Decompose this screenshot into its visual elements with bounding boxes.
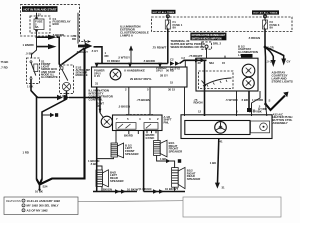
svg-text:BOX: BOX [53, 22, 59, 26]
speaker B1 front left (hatched) [111, 143, 124, 158]
svg-text:HOT AT ALL TIMES: HOT AT ALL TIMES [153, 11, 175, 14]
svg-text:LAMP: LAMP [238, 53, 246, 57]
svg-text:REVISIONS:: REVISIONS: [6, 199, 22, 203]
svg-text:HOT IN RUN AND START: HOT IN RUN AND START [24, 7, 57, 11]
svg-text:.5 WT/RD: .5 WT/RD [225, 98, 237, 102]
label B1 speaker [125, 143, 139, 155]
wire trunk to courtesy arrow [258, 92, 289, 112]
svg-text:SWITCH IN HEADLAMP POSN: SWITCH IN HEADLAMP POSN [192, 37, 222, 40]
svg-text:RD: RD [72, 37, 76, 41]
svg-text:10-31-91 JANUARY 1992: 10-31-91 JANUARY 1992 [27, 199, 61, 203]
AC panel top pin labels [198, 109, 262, 113]
dashed linkage to auto lamp relay [80, 36, 92, 43]
svg-text:.5 GY: .5 GY [267, 59, 274, 63]
wire speaker B4 to right ground bus [174, 187, 176, 192]
svg-text:1 BK: 1 BK [210, 161, 216, 165]
svg-text:.7 RD: .7 RD [1, 65, 8, 69]
svg-text:S CR: S CR [267, 46, 274, 50]
svg-text:BK/GN: BK/GN [103, 187, 112, 191]
label A32 right of AC panel [273, 112, 293, 124]
wire control unit to console box pin 2 [149, 87, 151, 115]
svg-text:U 15: U 15 [94, 74, 100, 78]
svg-text:30 15: 30 15 [168, 88, 175, 92]
cluster bulb 2 [243, 77, 255, 89]
wire node A down to switch S1 [32, 47, 37, 58]
brace splice connector [76, 40, 88, 55]
revisions box [4, 197, 78, 215]
bus wire node B [97, 63, 168, 65]
svg-text:.5 GY: .5 GY [91, 49, 98, 53]
svg-text:LAMPS A: LAMPS A [120, 34, 134, 38]
svg-text:7: 7 [116, 117, 118, 121]
wire from arrows to headlamp switch node [57, 37, 62, 66]
wire S2 to left trunk [42, 91, 67, 179]
fuse/relay box F1 (dashed enclosure) [21, 5, 80, 36]
svg-text:4: 4 [139, 117, 141, 121]
svg-text:S24: S24 [43, 184, 48, 188]
cluster below labels [225, 98, 263, 102]
title block box (bottom right) [183, 197, 281, 217]
connector arrow row 1 [37, 35, 57, 40]
note text terminal 30 [171, 39, 206, 49]
connector arrow row 2 [37, 37, 57, 49]
svg-text:30: 30 [198, 61, 202, 65]
ground bus left [93, 187, 140, 193]
svg-text:ASSEMBLY: ASSEMBLY [273, 121, 288, 125]
splice S5 [264, 46, 267, 49]
svg-text:AS OF MY 1992: AS OF MY 1992 [27, 208, 49, 212]
svg-text:1 BK: 1 BK [27, 85, 33, 89]
svg-text:2: 2 [157, 117, 159, 121]
in-line connector C2 [156, 57, 180, 72]
label A1 right of console panel [164, 115, 172, 125]
svg-text:15: 15 [222, 61, 226, 65]
fuse box right feed wire [77, 13, 79, 44]
fuse F2 inner box [30, 12, 50, 33]
svg-text:U HANDBRAKE: U HANDBRAKE [124, 68, 145, 72]
svg-text:MY 1992 300 SEL ONLY: MY 1992 300 SEL ONLY [27, 204, 59, 208]
wire speaker B3 down to junction [157, 155, 175, 167]
in-line connector on B3 wire [160, 157, 181, 163]
illumination control unit N8 (long box) [92, 67, 188, 87]
svg-text:HOT AT ALL TIMES: HOT AT ALL TIMES [253, 12, 278, 15]
label B4 speaker [187, 169, 201, 181]
svg-text:.5 BK/GN: .5 BK/GN [118, 105, 130, 109]
svg-text:1 BN/RD: 1 BN/RD [23, 43, 34, 47]
svg-text:.75 RD/WT: .75 RD/WT [189, 54, 203, 58]
svg-text:75 BK: 75 BK [1, 60, 9, 64]
wire console to right ground leg [143, 131, 145, 192]
svg-text:15: 15 [38, 12, 42, 16]
wire splice S5 branch arrow 1 [265, 48, 276, 68]
speaker B2 rear left (hatched) [96, 170, 108, 187]
wire S1 to splice trunk [31, 80, 37, 179]
wire fuse F3 down to splice S5 [264, 29, 266, 47]
svg-text:DRL 2: DRL 2 [213, 41, 221, 45]
svg-text:RD: RD [97, 104, 101, 108]
wire node C to instrument cluster feed [180, 60, 207, 63]
svg-text:.5 BR: .5 BR [241, 98, 248, 102]
label B2 speaker [110, 170, 124, 182]
wire brace to bus [94, 47, 103, 64]
in-line connector C10 arrows [57, 95, 70, 100]
svg-text:31: 31 [95, 82, 99, 86]
auto light sensor switch S2 (dashed box) [60, 65, 74, 94]
wire brace diagonal to S2 [62, 48, 85, 65]
fuse F3 [263, 20, 280, 30]
svg-text:31: 31 [222, 185, 226, 189]
power label HOT AT ALL TIMES (right) [252, 10, 279, 14]
svg-text:12: 12 [198, 109, 202, 113]
label B3 speaker [169, 141, 183, 153]
callout text courtesy lamps [272, 70, 293, 83]
connector arrow to the right [78, 43, 93, 49]
wire control unit to AC panel [184, 87, 186, 116]
fuse F1 [165, 20, 182, 30]
svg-text:RD/GN: RD/GN [194, 101, 203, 105]
svg-text:41: 41 [220, 140, 224, 144]
wire splice S5 branch arrow 2 [265, 47, 291, 66]
terminal 30 circle left [166, 15, 169, 18]
svg-text:8: 8 [236, 109, 238, 113]
speaker B4 rear right (hatched) [172, 167, 185, 188]
label S1 HEADLAMP SWITCH [41, 59, 58, 79]
console panel pin ticks below [124, 131, 156, 140]
gauge module dashed box inside cluster [199, 71, 234, 89]
svg-text:1 BK: 1 BK [160, 157, 166, 161]
ground bus right [140, 187, 185, 194]
wire console to speaker B1 [115, 131, 117, 144]
svg-text:WHEN RUNNING OR ON: WHEN RUNNING OR ON [171, 45, 204, 49]
wire console to speaker B3 [157, 131, 159, 141]
wire S1 branch right to connector [31, 91, 57, 98]
svg-text:.5 BK/RD: .5 BK/RD [143, 59, 155, 63]
pin stub 1 into control unit [91, 49, 99, 68]
svg-text:BK/RD: BK/RD [124, 134, 133, 138]
svg-text:ILLUMINATE: ILLUMINATE [41, 75, 58, 79]
wire speaker B2 to ground bus [101, 187, 103, 192]
console switch panel A1 (box) [113, 115, 163, 131]
svg-text:8A: 8A [35, 25, 39, 29]
svg-text:C2 SYS: C2 SYS [170, 67, 180, 71]
label S2 module [76, 65, 91, 77]
svg-text:5: 5 [147, 88, 149, 92]
terminal 30 circle right [264, 15, 267, 18]
AC panel inner box [185, 121, 250, 135]
svg-text:2: 2 [125, 88, 127, 92]
control unit internal labels [95, 56, 185, 91]
callout text ashtray illumination [238, 44, 258, 56]
divider line [78, 201, 183, 202]
ground G1 below splice [35, 184, 48, 193]
svg-text:1 BK/GN: 1 BK/GN [140, 187, 151, 191]
pin stub 2 into control unit [107, 59, 132, 67]
wire speaker B1 to trunk [97, 158, 114, 159]
svg-text:.5 RD/GN: .5 RD/GN [248, 36, 260, 40]
svg-text:5: 5 [127, 117, 129, 121]
wire bar to fuse F1 [167, 15, 169, 20]
svg-text:29 BK/GY RD/YL: 29 BK/GY RD/YL [130, 77, 152, 81]
stub connector off left trunk [42, 113, 58, 117]
svg-text:SPEAKER: SPEAKER [169, 149, 183, 153]
wire trunk into speaker B2 [97, 166, 102, 170]
wire splice S5 down trunk [264, 47, 267, 104]
svg-text:RD: RD [105, 54, 109, 58]
svg-text:.75 BK/BN: .75 BK/BN [137, 98, 151, 102]
svg-text:NOT WITH DAYTIME RUNNING LIGHT: NOT WITH DAYTIME RUNNING LIGHT [192, 34, 226, 37]
svg-text:SPEAKER: SPEAKER [187, 177, 201, 181]
wire fuse F1 down to node C [167, 29, 169, 64]
dimmer bulb E1 inside control unit [110, 69, 121, 80]
caution label NOT WITH DAYTIME RUNNING LAMP [190, 33, 226, 41]
speaker B3 front right (hatched) [154, 140, 167, 157]
svg-text:3: 3 [149, 117, 151, 121]
svg-text:SPEAKER: SPEAKER [110, 179, 124, 183]
svg-text:15 RD/BU: 15 RD/BU [107, 59, 120, 63]
svg-text:C2: C2 [170, 57, 174, 61]
svg-text:STORE LIGHTS: STORE LIGHTS [272, 79, 293, 83]
AC pushbutton panel A32 (outer box) [181, 115, 272, 139]
svg-text:GY/BK: GY/BK [146, 136, 155, 140]
wire cluster ground pin [247, 91, 256, 113]
wire trunk into AC panel right pin [266, 104, 267, 116]
wire from fuse 2 down to node A [36, 13, 38, 37]
power label HOT AT ALL TIMES (left) [152, 10, 176, 14]
trunk wire from brace down to splice S24 [40, 48, 85, 185]
callout text illumination intensity control [89, 88, 114, 101]
svg-text:58d: 58d [209, 61, 214, 65]
headlamp switch S1 (dashed box) [27, 58, 40, 83]
svg-text:S: S [269, 98, 271, 102]
wire cluster feed down to AC panel [204, 60, 206, 116]
wire cluster pin to AC right [252, 91, 261, 116]
terminal 58d circle [202, 42, 212, 49]
AC lamp sub box [251, 121, 270, 133]
wire from callout down to bus [118, 46, 133, 64]
instrument cluster A1 (box) [196, 56, 258, 91]
power label HOT IN RUN AND START [22, 6, 58, 12]
trunk wire control unit to speakers ground [96, 87, 98, 192]
wire cluster pin to AC panel [236, 91, 238, 116]
wire connector to illumination lamp [69, 98, 100, 113]
cluster bulb 1 [242, 64, 255, 77]
svg-text:1 BR: 1 BR [60, 94, 66, 98]
svg-text:28 GY: 28 GY [160, 73, 168, 77]
svg-text:10 BK: 10 BK [35, 190, 43, 194]
svg-text:10 BK/WT: 10 BK/WT [165, 187, 178, 191]
pin stub 3 into control unit [143, 59, 162, 67]
svg-text:1 RD: 1 RD [23, 151, 29, 155]
wire control unit to console box pin 1 [128, 87, 130, 115]
svg-text:SPLY: SPLY [156, 68, 163, 72]
shift gate bulb E3 [100, 113, 112, 128]
svg-text:MODULE: MODULE [76, 73, 88, 77]
svg-text:GY: GY [287, 59, 291, 63]
svg-text:.5 BK: .5 BK [90, 162, 97, 166]
node A junction [36, 36, 38, 38]
label C1 FUSE/RELAY BOX [53, 17, 71, 26]
svg-text:15: 15 [170, 80, 174, 84]
svg-text:.75 RD/WT: .75 RD/WT [152, 46, 167, 50]
AC panel ground wire [210, 139, 225, 190]
svg-text:SPEAKER: SPEAKER [125, 152, 139, 156]
blower symbol (star circle) [215, 122, 227, 134]
label tab A1 cluster [241, 54, 253, 58]
svg-text:8A: 8A [270, 26, 274, 30]
callout text illumination exterior lamps [120, 25, 149, 38]
wire bar to fuse F3 [264, 15, 266, 20]
svg-text:10 BK/WT: 10 BK/WT [127, 187, 140, 191]
svg-text:8A: 8A [173, 26, 177, 30]
splice S24 converge [37, 179, 43, 185]
terminal W on lamp wire [97, 101, 105, 111]
fuse box dashed enclosure (top right) [152, 17, 293, 32]
svg-text:PNL: PNL [164, 120, 170, 124]
